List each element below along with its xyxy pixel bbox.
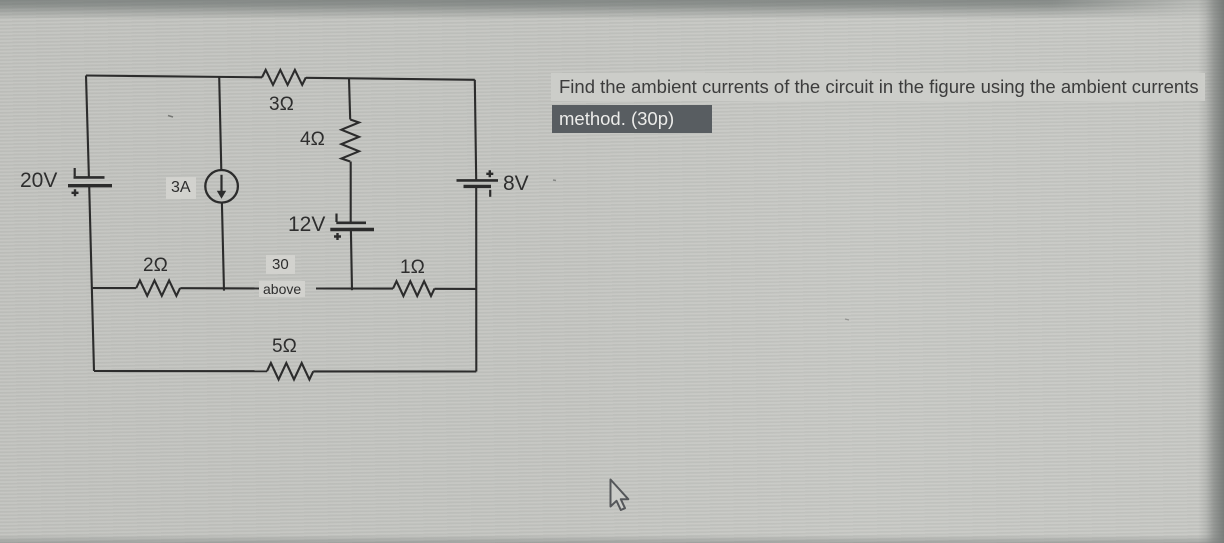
value label 30	[266, 255, 295, 274]
wire bottom-left segment	[94, 370, 267, 372]
resistor 3Ω	[262, 70, 306, 85]
wire middle row segment C	[316, 287, 393, 289]
resistor 4Ω	[341, 120, 359, 162]
wire top-left segment	[86, 76, 262, 78]
value label 1Ω	[400, 257, 425, 279]
value label above	[259, 281, 305, 297]
wire branch current-source lower	[222, 203, 224, 291]
speck	[168, 116, 173, 118]
value label 2Ω	[143, 255, 168, 277]
value label 3A	[166, 177, 196, 199]
mouse cursor	[611, 480, 629, 511]
problem text line 1	[551, 73, 1205, 101]
node label 20V	[20, 169, 57, 193]
resistor 2Ω	[136, 280, 180, 295]
value label 8V	[503, 172, 529, 196]
wire top-right segment	[306, 78, 475, 80]
resistor 1Ω	[393, 281, 434, 296]
problem text line 2	[552, 105, 712, 133]
value label 3Ω	[269, 94, 294, 116]
battery 20V	[68, 168, 112, 196]
value label 4Ω	[300, 129, 325, 151]
wire left lower	[89, 186, 94, 371]
wire branch 12V lower	[351, 230, 352, 290]
current source 3A	[205, 170, 238, 203]
wire middle row segment D	[435, 288, 477, 290]
wire bottom-right segment	[313, 370, 476, 372]
speck	[845, 319, 849, 320]
wire branch current-source upper	[219, 77, 221, 170]
battery 12V	[330, 214, 374, 241]
resistor 5Ω	[267, 363, 313, 380]
wire middle row segment B	[180, 287, 261, 289]
wire right upper	[475, 80, 476, 180]
wire branch 4ohm upper	[349, 78, 350, 119]
wire branch 4ohm middle	[350, 162, 352, 223]
value label 12V	[288, 213, 325, 237]
wire right lower	[475, 187, 477, 372]
wire left upper	[86, 76, 89, 178]
battery 8V	[457, 170, 499, 197]
speck	[553, 179, 556, 182]
wire middle row segment A	[93, 287, 137, 289]
value label 5Ω	[272, 336, 297, 358]
